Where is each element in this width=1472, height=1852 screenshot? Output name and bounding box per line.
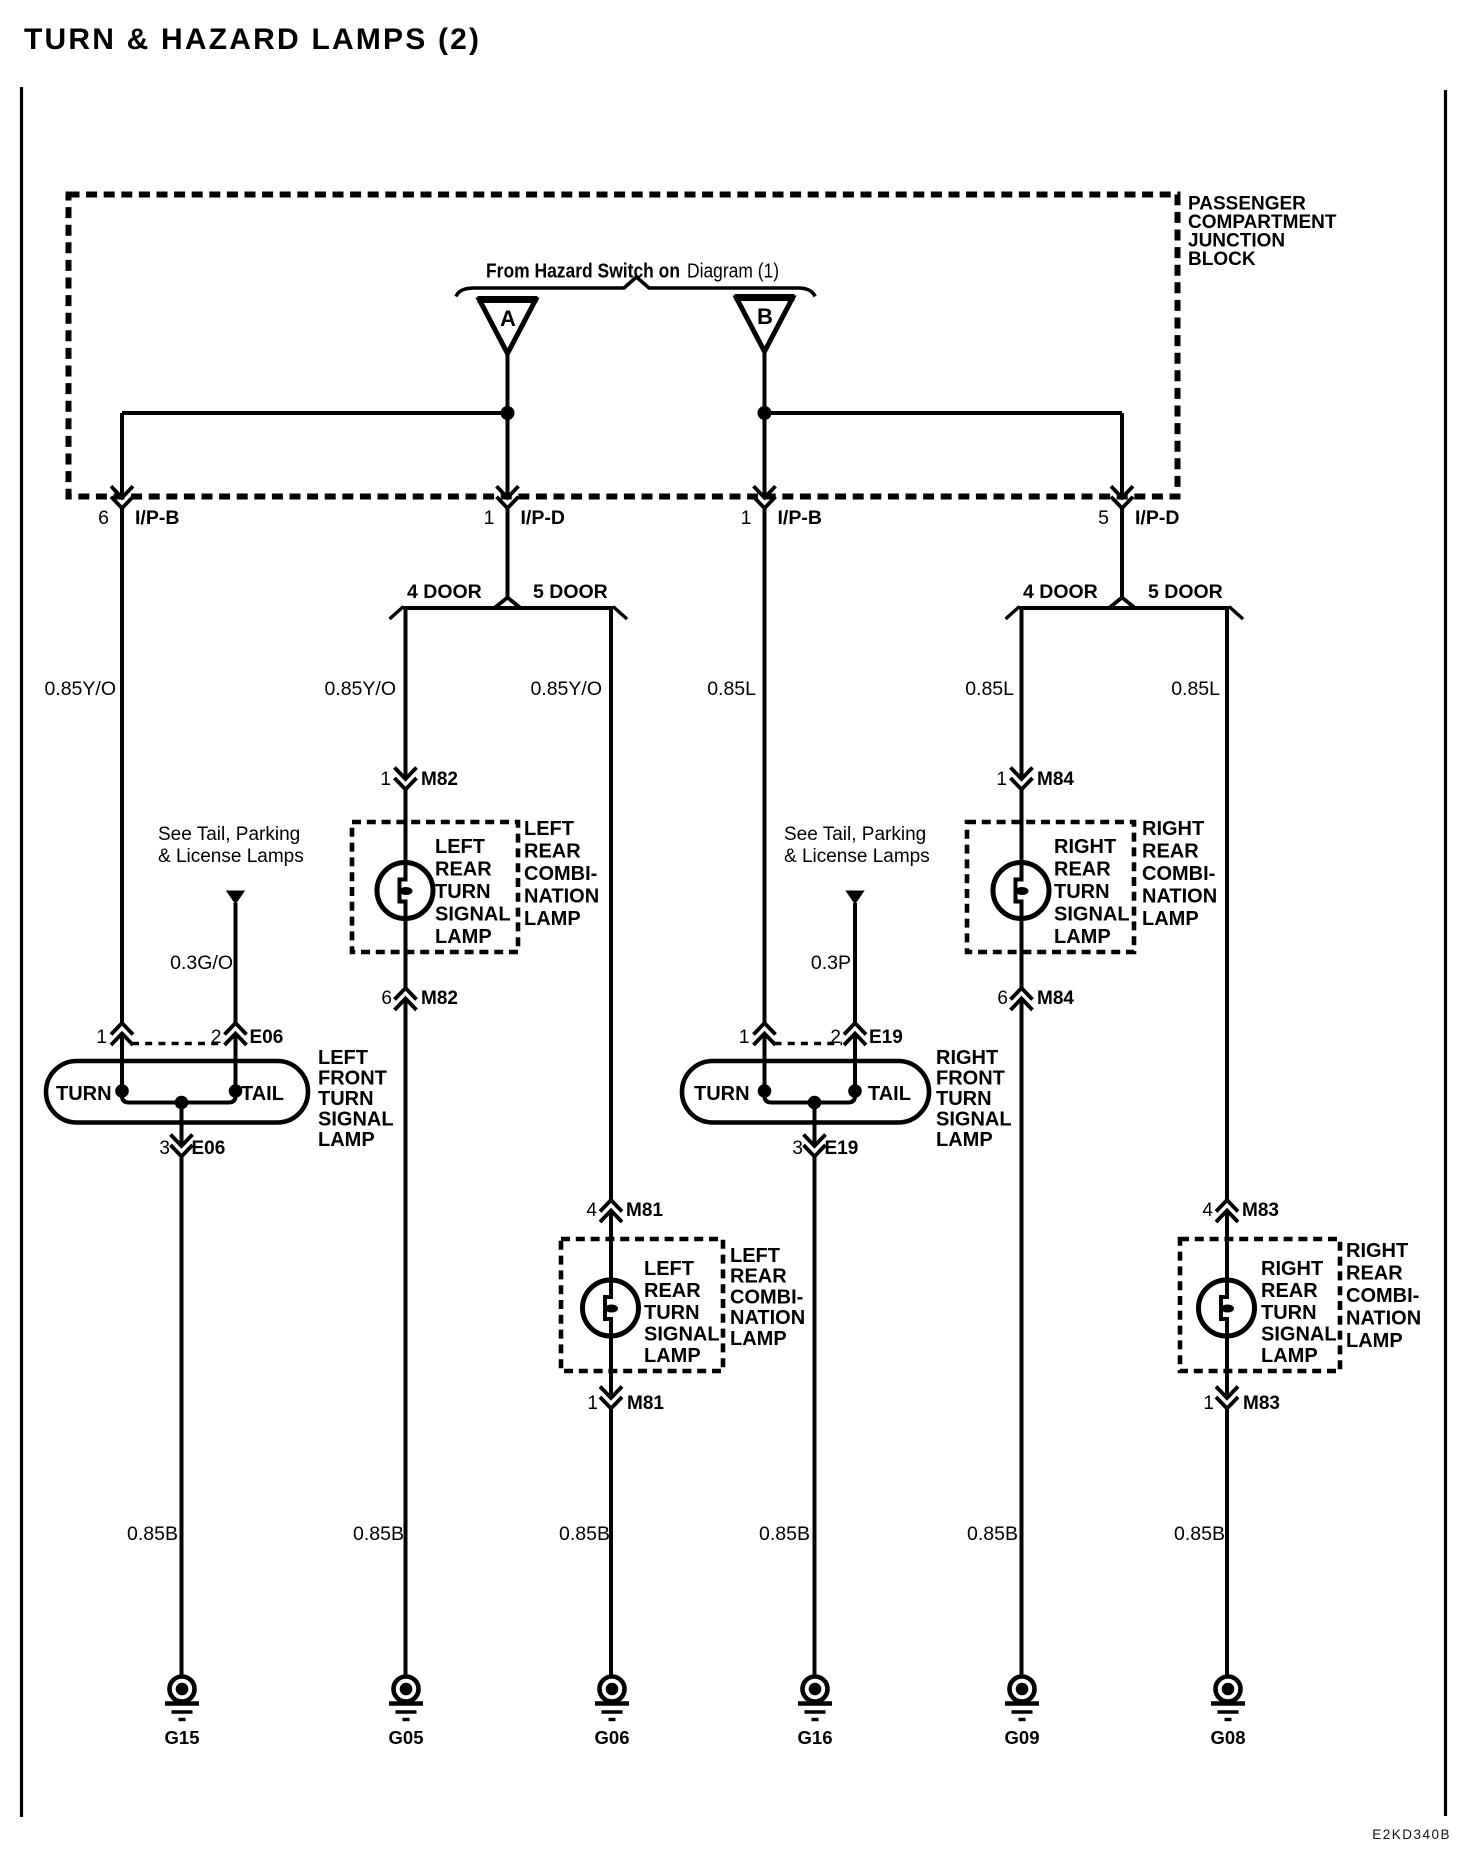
- svg-text:E19: E19: [825, 1138, 859, 1159]
- svg-text:LAMP: LAMP: [936, 1129, 993, 1151]
- svg-text:M82: M82: [421, 988, 458, 1009]
- svg-text:I/P-D: I/P-D: [1135, 507, 1179, 529]
- svg-text:LAMP: LAMP: [1142, 908, 1199, 930]
- svg-text:B: B: [757, 304, 773, 329]
- svg-text:COMBI-: COMBI-: [1142, 863, 1215, 885]
- svg-text:TURN: TURN: [644, 1302, 700, 1324]
- svg-text:M84: M84: [1037, 769, 1074, 790]
- svg-text:COMBI-: COMBI-: [730, 1286, 803, 1308]
- svg-text:4: 4: [1202, 1200, 1213, 1221]
- svg-text:M83: M83: [1242, 1200, 1279, 1221]
- svg-text:TAIL: TAIL: [241, 1083, 284, 1105]
- svg-text:SIGNAL: SIGNAL: [936, 1109, 1012, 1131]
- svg-text:NATION: NATION: [730, 1307, 805, 1329]
- svg-text:1: 1: [587, 1393, 598, 1414]
- svg-text:6: 6: [997, 988, 1008, 1009]
- svg-text:LEFT: LEFT: [435, 836, 485, 858]
- svg-text:4 DOOR: 4 DOOR: [407, 581, 482, 603]
- svg-text:LEFT: LEFT: [730, 1245, 780, 1267]
- svg-text:M81: M81: [626, 1200, 663, 1221]
- svg-text:E06: E06: [250, 1027, 284, 1048]
- svg-text:SIGNAL: SIGNAL: [435, 904, 511, 926]
- svg-text:5 DOOR: 5 DOOR: [533, 581, 608, 603]
- svg-text:I/P-B: I/P-B: [778, 507, 822, 529]
- svg-text:FRONT: FRONT: [318, 1067, 387, 1089]
- svg-text:LEFT: LEFT: [524, 818, 574, 840]
- svg-text:FRONT: FRONT: [936, 1067, 1005, 1089]
- svg-text:TURN & HAZARD LAMPS (2): TURN & HAZARD LAMPS (2): [24, 23, 481, 56]
- svg-text:1: 1: [741, 507, 752, 529]
- svg-text:I/P-B: I/P-B: [135, 507, 179, 529]
- svg-text:2: 2: [211, 1027, 222, 1048]
- svg-text:5: 5: [1098, 507, 1109, 529]
- svg-text:E19: E19: [869, 1027, 903, 1048]
- svg-text:LAMP: LAMP: [644, 1345, 701, 1367]
- svg-text:M81: M81: [627, 1393, 664, 1414]
- svg-text:4 DOOR: 4 DOOR: [1023, 581, 1098, 603]
- svg-text:LEFT: LEFT: [644, 1258, 694, 1280]
- svg-text:I/P-D: I/P-D: [521, 507, 565, 529]
- svg-text:1: 1: [996, 769, 1007, 790]
- svg-text:See Tail, Parking: See Tail, Parking: [784, 824, 926, 845]
- svg-text:RIGHT: RIGHT: [1142, 818, 1204, 840]
- svg-text:COMBI-: COMBI-: [1346, 1285, 1419, 1307]
- svg-text:0.85L: 0.85L: [1171, 678, 1220, 700]
- svg-text:1: 1: [1203, 1393, 1214, 1414]
- svg-text:LAMP: LAMP: [1054, 926, 1111, 948]
- svg-text:5 DOOR: 5 DOOR: [1148, 581, 1223, 603]
- svg-text:LAMP: LAMP: [435, 926, 492, 948]
- svg-text:BLOCK: BLOCK: [1188, 249, 1256, 270]
- svg-text:0.85Y/O: 0.85Y/O: [530, 678, 602, 700]
- svg-text:0.85B: 0.85B: [353, 1523, 404, 1545]
- svg-text:M84: M84: [1037, 988, 1074, 1009]
- svg-text:TURN: TURN: [1054, 881, 1110, 903]
- svg-text:REAR: REAR: [1261, 1280, 1318, 1302]
- svg-text:SIGNAL: SIGNAL: [1054, 904, 1130, 926]
- svg-text:See Tail, Parking: See Tail, Parking: [158, 824, 300, 845]
- svg-text:1: 1: [484, 507, 495, 529]
- svg-text:LAMP: LAMP: [318, 1129, 375, 1151]
- svg-text:1: 1: [380, 769, 391, 790]
- svg-text:SIGNAL: SIGNAL: [644, 1324, 720, 1346]
- svg-text:G16: G16: [798, 1727, 833, 1748]
- svg-text:TURN: TURN: [56, 1083, 112, 1105]
- svg-text:0.85B: 0.85B: [559, 1523, 610, 1545]
- svg-text:RIGHT: RIGHT: [1054, 836, 1116, 858]
- svg-text:3: 3: [792, 1138, 803, 1159]
- svg-text:REAR: REAR: [1142, 841, 1199, 863]
- svg-text:LAMP: LAMP: [730, 1328, 787, 1350]
- svg-text:6: 6: [381, 988, 392, 1009]
- svg-text:REAR: REAR: [730, 1266, 787, 1288]
- svg-text:RIGHT: RIGHT: [1346, 1240, 1408, 1262]
- svg-text:3: 3: [159, 1138, 170, 1159]
- svg-text:1: 1: [96, 1027, 107, 1048]
- svg-text:SIGNAL: SIGNAL: [318, 1109, 394, 1131]
- svg-text:TURN: TURN: [318, 1088, 374, 1110]
- svg-text:TAIL: TAIL: [868, 1083, 911, 1105]
- svg-text:SIGNAL: SIGNAL: [1261, 1324, 1337, 1346]
- svg-text:4: 4: [586, 1200, 597, 1221]
- svg-text:0.85L: 0.85L: [707, 678, 756, 700]
- svg-text:G08: G08: [1211, 1727, 1246, 1748]
- svg-text:TURN: TURN: [936, 1088, 992, 1110]
- svg-text:NATION: NATION: [1142, 886, 1217, 908]
- svg-text:NATION: NATION: [1346, 1308, 1421, 1330]
- svg-text:REAR: REAR: [435, 859, 492, 881]
- svg-text:NATION: NATION: [524, 886, 599, 908]
- svg-text:TURN: TURN: [694, 1083, 750, 1105]
- svg-text:0.85L: 0.85L: [965, 678, 1014, 700]
- svg-text:REAR: REAR: [644, 1280, 701, 1302]
- svg-text:0.85Y/O: 0.85Y/O: [44, 678, 116, 700]
- svg-text:REAR: REAR: [1346, 1263, 1403, 1285]
- svg-text:LAMP: LAMP: [1346, 1330, 1403, 1352]
- svg-text:& License Lamps: & License Lamps: [784, 846, 930, 867]
- svg-text:LAMP: LAMP: [1261, 1345, 1318, 1367]
- svg-text:LEFT: LEFT: [318, 1047, 368, 1069]
- svg-text:& License Lamps: & License Lamps: [158, 846, 304, 867]
- svg-text:0.85B: 0.85B: [759, 1523, 810, 1545]
- svg-text:0.85Y/O: 0.85Y/O: [324, 678, 396, 700]
- svg-text:LAMP: LAMP: [524, 908, 581, 930]
- svg-text:0.85B: 0.85B: [967, 1523, 1018, 1545]
- svg-text:0.85B: 0.85B: [1174, 1523, 1225, 1545]
- svg-text:G06: G06: [595, 1727, 630, 1748]
- svg-text:A: A: [500, 306, 516, 331]
- svg-text:Diagram (1): Diagram (1): [687, 261, 779, 283]
- svg-text:M82: M82: [421, 769, 458, 790]
- svg-text:6: 6: [98, 507, 109, 529]
- svg-text:2: 2: [830, 1027, 841, 1048]
- svg-text:E06: E06: [192, 1138, 226, 1159]
- svg-text:G15: G15: [165, 1727, 200, 1748]
- svg-text:0.3G/O: 0.3G/O: [170, 952, 233, 974]
- svg-text:TURN: TURN: [1261, 1302, 1317, 1324]
- svg-text:TURN: TURN: [435, 881, 491, 903]
- svg-text:0.85B: 0.85B: [127, 1523, 178, 1545]
- svg-text:E2KD340B: E2KD340B: [1372, 1827, 1451, 1842]
- svg-text:RIGHT: RIGHT: [1261, 1258, 1323, 1280]
- svg-text:COMBI-: COMBI-: [524, 863, 597, 885]
- svg-text:1: 1: [739, 1027, 750, 1048]
- svg-text:REAR: REAR: [1054, 859, 1111, 881]
- svg-text:M83: M83: [1243, 1393, 1280, 1414]
- svg-text:G05: G05: [389, 1727, 424, 1748]
- svg-text:0.3P: 0.3P: [811, 952, 851, 974]
- svg-text:RIGHT: RIGHT: [936, 1047, 998, 1069]
- svg-text:From Hazard Switch on: From Hazard Switch on: [486, 261, 680, 283]
- svg-text:G09: G09: [1005, 1727, 1040, 1748]
- svg-text:REAR: REAR: [524, 841, 581, 863]
